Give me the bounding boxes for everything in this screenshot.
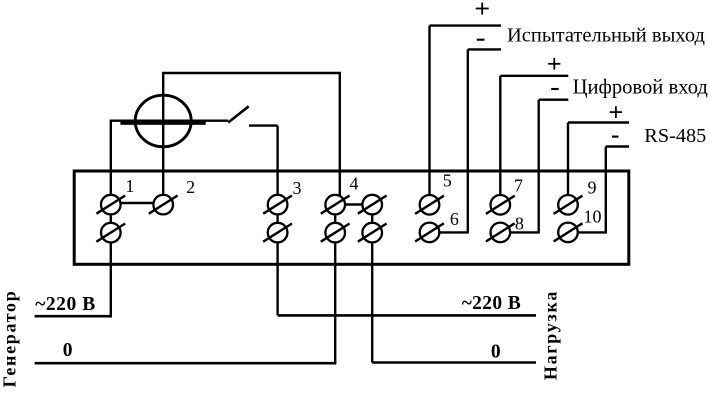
wire: terminal 1 vertical (CT primary to generator phase) [110, 121, 112, 317]
svg-text:Испытательный выход: Испытательный выход [507, 25, 705, 47]
wire: RS-485 minus line [606, 145, 629, 147]
wire: generator neutral line [35, 362, 337, 365]
wire: link terminal 4a to terminal 4b [335, 203, 372, 205]
minus sign test output [477, 39, 485, 41]
wire: terminal 3 vertical down to load phase [276, 126, 278, 316]
svg-text:9: 9 [588, 178, 597, 198]
terminal box [74, 171, 629, 264]
terminal 4b screws [358, 195, 387, 243]
wire: terminal 7 riser [499, 76, 501, 203]
wire: terminal 9 riser [567, 123, 569, 204]
svg-text:4: 4 [350, 173, 359, 193]
terminal 10 screw [554, 223, 583, 243]
svg-text:RS-485: RS-485 [644, 125, 706, 147]
minus sign RS-485 [612, 136, 619, 138]
svg-text:0: 0 [63, 340, 73, 361]
terminal 5 screw [415, 195, 444, 215]
wire: terminal 6 leg [438, 231, 469, 233]
svg-text:5: 5 [443, 170, 452, 190]
wire: generator phase line [35, 315, 112, 318]
plus sign test output [476, 3, 489, 15]
switch S blade [228, 106, 249, 122]
svg-text:6: 6 [450, 209, 459, 229]
terminal 9 screw [554, 195, 583, 215]
plus sign digital input [548, 58, 560, 70]
plus sign RS-485 [610, 106, 622, 118]
wire: terminal 6 riser [467, 49, 469, 232]
wire: terminal 10 riser [605, 147, 607, 233]
terminal 8 screw [486, 223, 515, 243]
terminal 4a screws [321, 195, 350, 243]
svg-text:1: 1 [125, 176, 134, 196]
terminal 6 screw [415, 223, 444, 243]
svg-text:10: 10 [584, 207, 602, 227]
wire: test output plus line [430, 24, 502, 26]
terminal 7 screw [486, 195, 515, 215]
wire: terminal 5 riser [428, 26, 430, 203]
wire: load phase line [278, 314, 536, 317]
terminal 1 screws [96, 195, 125, 243]
wire: terminal 10 leg [577, 231, 607, 233]
svg-text:7: 7 [514, 175, 523, 195]
terminal 2 screw [149, 195, 178, 215]
svg-text:~220 В: ~220 В [462, 293, 521, 314]
svg-text:8: 8 [515, 213, 524, 233]
wire: switch output to terminal 3 [249, 124, 278, 126]
svg-text:Цифровой вход: Цифровой вход [573, 76, 709, 98]
wire: test output minus line [468, 48, 501, 50]
svg-text:0: 0 [491, 341, 501, 362]
wire: terminal 4a vertical down to generator neutral [334, 205, 336, 364]
wire: CT secondary from circle down to terminal 2 and up over to terminal 4 [163, 73, 340, 205]
svg-text:Генератор: Генератор [0, 290, 20, 388]
wire: link terminal 1 to terminal 2 [111, 202, 163, 204]
wire: digital input plus line [500, 75, 568, 77]
terminal 3 screws [263, 195, 292, 243]
wire: CT primary thin wire to switch pivot [110, 119, 229, 121]
wire: load neutral line [372, 361, 536, 364]
wire: RS-485 plus line [568, 121, 629, 123]
svg-text:~220 В: ~220 В [35, 294, 96, 315]
wire: terminal 8 leg [509, 231, 540, 233]
current transformer ellipse [135, 95, 191, 147]
minus sign digital input [551, 88, 559, 90]
svg-text:Нагрузка: Нагрузка [540, 290, 560, 380]
wire: digital input minus line [539, 98, 569, 100]
svg-text:2: 2 [186, 177, 195, 197]
svg-text:3: 3 [293, 178, 302, 198]
wire: terminal 8 riser [538, 100, 540, 233]
current transformer primary bar [120, 121, 205, 125]
wire: terminal 4b vertical down to load neutral [371, 205, 373, 363]
